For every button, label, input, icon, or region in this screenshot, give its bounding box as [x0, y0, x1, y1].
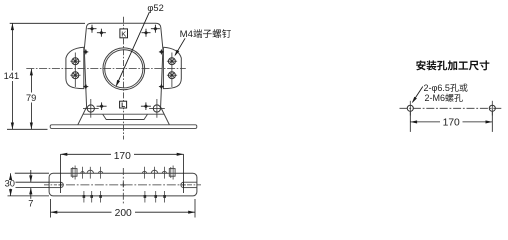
right terminal block — [163, 47, 181, 88]
svg-text:170: 170 — [114, 151, 131, 162]
right slot center cross — [181, 184, 186, 186]
svg-text:2-φ6.5: 2-φ6.5 — [424, 83, 450, 93]
dimension 7 extensions — [16, 181, 50, 183]
phi52 leader line — [116, 12, 149, 86]
dimension 141 line — [11, 23, 13, 70]
mounting holes centerline — [400, 107, 502, 109]
bottom view: terminal strip right square — [169, 169, 175, 177]
bottom view: terminal strip left square — [71, 169, 77, 177]
left block rivet bottom — [83, 86, 88, 88]
bobbin flange trapezoid — [103, 114, 148, 119]
dimension 200 line — [51, 211, 112, 213]
141 top extension line — [10, 22, 85, 24]
dimension 170 (holes) line — [410, 121, 440, 123]
body bottom edge line — [83, 113, 164, 115]
bottom view: center mark — [121, 184, 126, 186]
dimension 170 (bottom view) extension left — [60, 154, 62, 193]
svg-text:M4: M4 — [180, 29, 194, 40]
L terminal mark — [120, 101, 127, 108]
base rivet right — [141, 105, 151, 107]
base mounting screw left (front view) — [90, 99, 92, 118]
svg-text:79: 79 — [26, 93, 36, 103]
dimension 170 (holes) extension left — [409, 112, 411, 132]
bottom view: lower screws left — [83, 191, 85, 203]
svg-text:141: 141 — [4, 71, 20, 81]
center hole inner circle (phi52) — [105, 50, 143, 88]
left block screw axis — [74, 53, 76, 88]
svg-text:170: 170 — [443, 118, 460, 129]
base plate — [50, 125, 197, 129]
bottom view: base plate outline — [49, 173, 197, 196]
center hole outer circle — [103, 48, 145, 90]
K terminal mark — [120, 29, 128, 38]
svg-text:200: 200 — [115, 208, 132, 219]
svg-text:K: K — [121, 29, 126, 38]
front view: vertical centerline — [123, 17, 125, 140]
front view: horizontal centerline (79 extension) — [26, 68, 186, 70]
bottom view: lower screws right — [144, 191, 146, 203]
body outline — [78, 23, 170, 125]
right mounting hole — [491, 101, 493, 116]
dimension 170 (bottom view) extension right — [183, 154, 185, 193]
dimension 200 extension right — [194, 199, 196, 218]
left mounting hole — [409, 101, 411, 116]
right block rivet top — [159, 51, 164, 53]
svg-text:φ52: φ52 — [147, 3, 163, 13]
dimension 7 line and arrows — [30, 188, 32, 199]
top cover rivets — [88, 28, 97, 30]
left block rivet top — [83, 51, 88, 53]
dimension 30 line — [10, 173, 12, 178]
svg-text:L: L — [121, 102, 125, 109]
M4 terminal screw leader — [175, 38, 185, 55]
right block screw axis — [171, 53, 173, 88]
left terminal block — [66, 47, 84, 88]
right mounting slot — [184, 181, 197, 183]
right screw M4 upper — [167, 60, 177, 62]
hole note leader — [413, 87, 423, 103]
dimension 170 (bottom view) line — [61, 153, 112, 155]
dimension 200 extension left — [50, 199, 52, 218]
141/79 bottom extension line — [7, 128, 48, 130]
left screw M4 lower — [70, 74, 80, 76]
svg-text:30: 30 — [5, 178, 15, 188]
dimension 170 (holes) extension right — [491, 112, 493, 132]
right screw M4 lower — [167, 74, 177, 76]
svg-text:7: 7 — [28, 199, 33, 209]
svg-text:2-M6: 2-M6 — [425, 93, 446, 103]
dimension 30 extension bottom — [8, 195, 50, 197]
right block rivet bottom — [159, 86, 164, 88]
bottom view: vertical center dashes — [122, 168, 124, 205]
bottom view: horizontal centerline — [66, 184, 181, 186]
left slot center cross — [58, 184, 63, 186]
title: mounting hole machining dimensions — [416, 60, 425, 70]
bottom view: screw domes right — [142, 171, 146, 173]
dimension 79 line — [30, 69, 32, 93]
dimension 30 extension top — [15, 172, 49, 174]
base rivet left — [97, 105, 107, 107]
bottom view: screw domes left — [81, 172, 85, 174]
left screw M4 upper — [70, 60, 80, 62]
left mounting slot — [49, 181, 61, 183]
base mounting screw right (front view) — [156, 99, 158, 118]
